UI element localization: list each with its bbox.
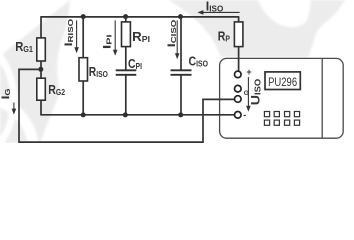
svg-text:-: - xyxy=(243,110,246,120)
terminal G xyxy=(235,96,242,103)
wire RG1-RG2 xyxy=(40,61,42,79)
watermark bottom-left arc xyxy=(0,99,34,202)
resistor RISO xyxy=(79,58,88,81)
terminal minus xyxy=(235,112,242,119)
arrow UISO xyxy=(246,77,251,112)
resistor RP xyxy=(234,22,243,47)
capacitor CPI xyxy=(116,70,137,75)
svg-text:PU296: PU296 xyxy=(268,75,297,89)
resistor RPI xyxy=(122,22,131,47)
wire RISO bottom xyxy=(82,81,84,115)
arrow IG xyxy=(12,103,17,115)
watermark top-right mass xyxy=(168,0,345,57)
wire RISO top xyxy=(82,17,84,58)
arrow IRISO xyxy=(74,20,79,53)
label UISO xyxy=(249,79,263,106)
label IG xyxy=(0,88,12,99)
wire RPI-CPI xyxy=(125,47,127,71)
node junction CISO top xyxy=(178,14,183,19)
node junction RISO top xyxy=(81,14,86,19)
watermark left arc 2 xyxy=(0,26,14,174)
label IRISO xyxy=(63,19,75,47)
wire bottom bus xyxy=(40,114,234,116)
terminal plus xyxy=(235,71,242,78)
watermark left mass xyxy=(0,0,70,143)
svg-text:+: + xyxy=(246,67,251,77)
wire RG2 bottom xyxy=(40,100,42,115)
label IPI xyxy=(101,34,113,49)
wire RP top xyxy=(238,16,240,22)
device box PU296 meter xyxy=(220,58,344,138)
wire RPI top xyxy=(125,17,127,22)
arrow IPI xyxy=(113,20,118,55)
terminal aux xyxy=(235,85,242,92)
wire top bus xyxy=(41,16,239,18)
arrow ICISO xyxy=(175,20,180,59)
capacitor CISO xyxy=(171,70,192,75)
arrow IISO xyxy=(197,10,239,15)
node junction RG xyxy=(38,67,43,72)
node junction RPI top xyxy=(123,14,128,19)
device divider xyxy=(321,58,323,138)
keypad buttons xyxy=(264,112,299,126)
resistor RG2 xyxy=(37,78,46,100)
display label PU296 xyxy=(265,72,300,90)
wire CISO top xyxy=(180,17,182,71)
wire CISO bottom xyxy=(180,75,182,115)
wire guard loop xyxy=(19,69,234,142)
node junction CISO bottom xyxy=(178,112,183,117)
label ICISO xyxy=(166,20,178,48)
node junction RISO bottom xyxy=(81,112,86,117)
node junction CPI bottom xyxy=(123,112,128,117)
wire RG1 top xyxy=(40,16,42,38)
wire CPI bottom xyxy=(125,75,127,115)
wire RP to plus terminal xyxy=(238,47,240,72)
resistor RG1 xyxy=(37,38,46,61)
